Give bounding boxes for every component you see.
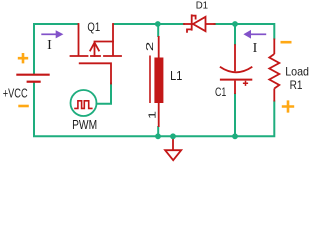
svg-text:Load: Load [285,65,309,79]
svg-text:PWM: PWM [72,117,97,132]
svg-text:D1: D1 [196,0,209,12]
svg-text:+VCC: +VCC [3,85,28,100]
svg-text:C1: C1 [215,85,227,99]
svg-text:R1: R1 [290,78,303,92]
svg-text:1: 1 [146,111,158,119]
svg-text:I: I [47,38,52,53]
svg-text:L1: L1 [170,69,182,83]
svg-text:2: 2 [144,41,156,51]
svg-text:I: I [253,41,258,56]
svg-text:Q1: Q1 [87,20,100,34]
